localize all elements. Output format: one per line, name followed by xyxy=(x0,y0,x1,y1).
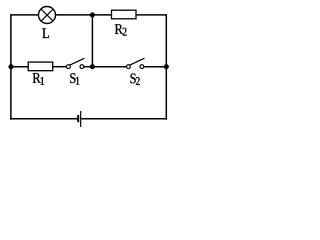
resistor R1 xyxy=(28,62,53,71)
lamp L cross diagonal 1 xyxy=(41,9,53,21)
switch S2 right contact xyxy=(140,65,144,69)
wire: middle from R1 to S1 xyxy=(53,66,67,68)
node A junction dot top xyxy=(90,13,95,18)
label L xyxy=(42,28,49,38)
wire: top from lamp to node A xyxy=(56,14,93,16)
battery negative plate (short thick) xyxy=(77,115,79,122)
wire: middle from S2 to right wire xyxy=(144,66,167,68)
switch S1 right contact xyxy=(80,65,84,69)
wire: middle vertical from node A down to node B xyxy=(91,15,93,67)
label R1 xyxy=(33,73,44,85)
wire: top from R2 to right corner xyxy=(136,14,167,16)
switch S1 lever xyxy=(70,58,85,65)
wire: right vertical xyxy=(165,14,167,120)
wire: top from node A to R2 xyxy=(92,14,111,16)
label S2 xyxy=(130,74,139,85)
resistor R2 xyxy=(112,10,137,19)
wire: middle from node B to S2 xyxy=(92,66,126,68)
switch S1 left contact xyxy=(67,65,71,69)
switch S2 left contact xyxy=(126,65,130,69)
node B junction dot middle xyxy=(90,64,95,69)
label R2 xyxy=(115,24,127,35)
wire: bottom from left corner to battery xyxy=(10,118,77,120)
wire: top from left corner to lamp xyxy=(10,14,38,16)
wire: middle from S1 to node B xyxy=(84,66,93,68)
node junction dot left middle xyxy=(9,64,14,69)
lamp L cross diagonal 2 xyxy=(41,9,53,21)
lamp L circle xyxy=(39,7,56,24)
switch S2 lever xyxy=(130,58,145,65)
node junction dot right middle xyxy=(164,64,169,69)
label S1 xyxy=(70,73,79,84)
wire: middle from left wire to R1 xyxy=(11,66,28,68)
wire: bottom from battery to right corner xyxy=(81,118,167,120)
wire: left vertical xyxy=(10,14,12,120)
battery positive plate (long thin) xyxy=(80,111,82,127)
